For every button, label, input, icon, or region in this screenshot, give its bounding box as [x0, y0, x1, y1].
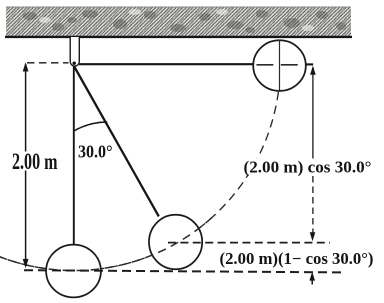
- svg-text:(2.00 m) cos 30.0°: (2.00 m) cos 30.0°: [244, 157, 372, 176]
- crosshair vertical on right ball: [279, 40, 281, 92]
- bottom reference dashed line y=271: [24, 270, 343, 272]
- horizontal string to right ball: [79, 63, 313, 65]
- text 2.00 m: [10, 149, 59, 174]
- text (2.00 m) cos 30.0deg: [241, 157, 375, 176]
- dashed arc over balls (redraw portion crossing middle and left balls): [0, 218, 212, 271]
- middle ball (30 deg position): [149, 215, 202, 269]
- bottom up arrow: [309, 272, 315, 285]
- ceiling top edge: [6, 6, 351, 8]
- svg-text:30.0°: 30.0°: [78, 142, 113, 162]
- angle arc 30 deg: [74, 122, 108, 131]
- pivot dot: [73, 62, 76, 65]
- pendulum dashed arc (path of bob), center (73.8,64) r 206.5: [0, 64, 280, 271]
- pivot bracket: [70, 37, 79, 66]
- dashed connector pivot to left dim line: [27, 62, 69, 64]
- crosshair horizontal dashes inside right ball: [257, 64, 298, 66]
- vertical string (theta=0 position): [73, 66, 75, 245]
- ceiling bottom edge: [5, 36, 352, 38]
- pendulum rod at 30 degrees: [74, 67, 159, 217]
- svg-text:(2.00 m)(1− cos 30.0°): (2.00 m)(1− cos 30.0°): [220, 249, 374, 268]
- right dimension line (2.00m cos30): [310, 66, 316, 242]
- ceiling hatched band: [5, 7, 352, 37]
- svg-text:2.00 m: 2.00 m: [12, 149, 58, 174]
- text (2.00 m)(1- cos 30.0deg): [217, 249, 376, 268]
- top reference dashed line y=242.6: [168, 242, 330, 244]
- left ball (lowest position): [46, 245, 101, 298]
- right ball (horizontal position): [253, 40, 306, 91]
- left dimension line: [23, 62, 29, 268]
